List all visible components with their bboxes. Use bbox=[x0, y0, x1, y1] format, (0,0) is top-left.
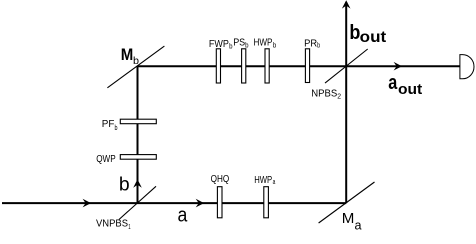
svg-text:a: a bbox=[388, 72, 398, 94]
svg-text:QWP: QWP bbox=[96, 154, 116, 165]
svg-text:out: out bbox=[398, 81, 422, 98]
svg-text:VNPBS: VNPBS bbox=[96, 219, 128, 230]
svg-text:b: b bbox=[115, 123, 118, 132]
svg-text:QHQ: QHQ bbox=[211, 174, 230, 185]
svg-text:FWP: FWP bbox=[209, 39, 229, 50]
svg-text:out: out bbox=[360, 29, 387, 46]
svg-text:b: b bbox=[133, 56, 139, 67]
svg-text:b: b bbox=[229, 42, 232, 51]
svg-text:2: 2 bbox=[337, 92, 341, 101]
svg-text:a: a bbox=[355, 218, 363, 233]
svg-text:PF: PF bbox=[102, 119, 115, 130]
svg-text:b: b bbox=[245, 40, 248, 49]
svg-text:NPBS: NPBS bbox=[311, 88, 337, 99]
svg-text:M: M bbox=[342, 210, 355, 227]
svg-text:HWP: HWP bbox=[254, 175, 272, 186]
svg-text:PS: PS bbox=[233, 38, 245, 49]
svg-text:b: b bbox=[273, 40, 276, 49]
svg-text:1: 1 bbox=[128, 222, 130, 231]
svg-text:a: a bbox=[178, 205, 189, 227]
svg-text:M: M bbox=[121, 46, 134, 64]
svg-text:b: b bbox=[119, 175, 130, 196]
svg-text:b: b bbox=[317, 41, 320, 50]
svg-text:PR: PR bbox=[304, 39, 317, 50]
svg-text:HWP: HWP bbox=[254, 38, 273, 49]
